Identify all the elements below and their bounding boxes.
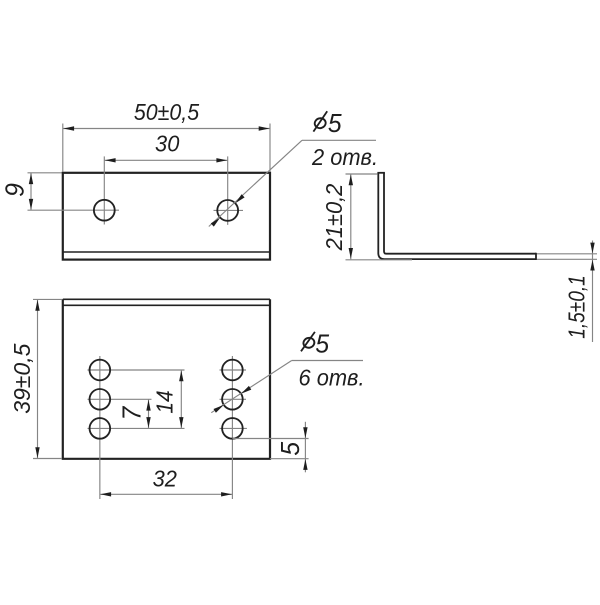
7-dim dimension line (148, 399, 150, 428)
5-dim extension top (232, 438, 308, 440)
21-dim extension top (346, 173, 378, 175)
svg-text:1,5±0,1: 1,5±0,1 (565, 275, 590, 339)
front view hole B1 (222, 360, 243, 381)
svg-text:5: 5 (315, 330, 330, 359)
32-dim dimension line (100, 493, 233, 495)
1.5-dim extension bottom (537, 258, 597, 260)
front view hole A3 (90, 418, 111, 439)
svg-text:5: 5 (276, 441, 305, 456)
top view bend line (63, 251, 270, 253)
left column centerline (99, 356, 101, 499)
row3 right centerline (220, 427, 247, 429)
top view left hole (94, 200, 115, 221)
39-dim dimension line (37, 299, 39, 458)
L-profile outer contour (378, 173, 536, 259)
39-dim extension top (33, 298, 62, 300)
50-dim extension line right (269, 124, 271, 172)
front view plate outline (63, 299, 270, 459)
svg-text:50±0,5: 50±0,5 (134, 99, 200, 125)
svg-text:21±0,2: 21±0,2 (321, 183, 347, 251)
50-dim dimension line (63, 128, 270, 130)
1.5-dim extension top (537, 253, 597, 255)
svg-text:30: 30 (155, 131, 180, 157)
row1 left centerline (88, 369, 185, 371)
svg-text:32: 32 (153, 466, 178, 492)
front view hole A2 (90, 389, 111, 410)
front view hole B3 (222, 418, 243, 439)
5-dim extension bottom (270, 458, 309, 460)
diameter symbol bottom label (302, 337, 315, 349)
row2 left centerline (88, 398, 152, 400)
39-dim extension bottom (33, 458, 62, 460)
5-dim dimension line (304, 422, 306, 473)
1.5-dim dimension line (592, 241, 594, 343)
front view thickness line (63, 304, 270, 306)
top view right hole centerline vertical (227, 156, 229, 225)
svg-text:14: 14 (152, 390, 178, 413)
row2 right centerline (220, 398, 247, 400)
L-profile top cap (377, 172, 385, 174)
L-profile inner contour (384, 173, 536, 254)
front view hole A1 (90, 360, 111, 381)
L-profile end cap (535, 253, 537, 260)
front view hole B2 (222, 389, 243, 410)
top view left hole centerline vertical (103, 156, 105, 224)
hole label leader (front view) (211, 361, 291, 413)
top view right hole (217, 200, 238, 221)
svg-text:7: 7 (118, 406, 147, 421)
svg-text:5: 5 (328, 109, 343, 138)
diameter symbol top label (314, 117, 327, 129)
svg-text:39±0,5: 39±0,5 (9, 343, 35, 413)
top view right hole centerline horizontal (214, 209, 244, 211)
row3 left centerline (88, 427, 185, 429)
50-dim extension line left (62, 124, 64, 172)
30-dim dimension line (104, 159, 227, 161)
14-dim dimension line (180, 370, 182, 428)
top view left hole centerline horizontal / 9-dim extension (28, 209, 120, 211)
21-dim extension bottom (346, 259, 413, 261)
svg-text:2 отв.: 2 отв. (311, 144, 378, 170)
21-dim dimension line (350, 174, 352, 259)
front view top edge (63, 298, 270, 300)
hole label leader (top view) (209, 140, 302, 226)
top view plate outline (63, 173, 270, 260)
row1 right centerline (220, 369, 247, 371)
9-dim dimension line (30, 173, 32, 210)
svg-text:6 отв.: 6 отв. (298, 365, 364, 391)
9-dim extension line top (28, 172, 63, 174)
svg-text:9: 9 (1, 183, 30, 197)
right column centerline (231, 356, 233, 499)
